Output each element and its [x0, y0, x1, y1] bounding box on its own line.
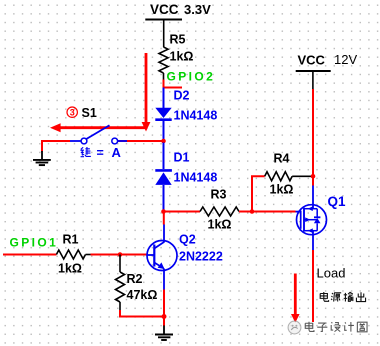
power symbol VCC 3.3V — [145, 2, 211, 20]
svg-text:GPIO2: GPIO2 — [167, 70, 216, 84]
annotation red arrow down (current path) — [142, 53, 151, 132]
svg-text:1N4148: 1N4148 — [174, 171, 218, 185]
svg-text:R1: R1 — [63, 233, 79, 247]
switch S1 — [70, 125, 127, 144]
svg-text:R5: R5 — [170, 33, 186, 47]
svg-text:3: 3 — [70, 108, 75, 118]
annotation red arrow left (current path) — [50, 123, 147, 132]
transistor Q2 2N2222 — [147, 225, 223, 290]
wire R4 left leg — [252, 176, 265, 211]
svg-text:12V: 12V — [334, 52, 357, 67]
svg-text:R2: R2 — [127, 272, 143, 286]
ground (left) — [33, 151, 51, 165]
svg-text:1N4148: 1N4148 — [174, 109, 218, 123]
svg-text:1kΩ: 1kΩ — [208, 218, 232, 232]
annotation circled 3 — [67, 107, 77, 118]
wire VCC12 rail — [312, 89, 314, 186]
power symbol VCC 12V — [296, 52, 358, 89]
wire R2 to emitter net — [120, 310, 164, 317]
svg-text:Load: Load — [317, 266, 346, 281]
svg-text:VCC: VCC — [298, 53, 326, 68]
svg-text:S1: S1 — [82, 106, 97, 120]
node junction D1/R3/Q2 — [161, 209, 166, 214]
diode D1 1N4148 — [155, 143, 217, 211]
svg-text:A: A — [112, 145, 122, 160]
wire GPIO2 net stub — [164, 80, 183, 88]
svg-text:47kΩ: 47kΩ — [127, 288, 158, 302]
node junction R4/rail — [311, 174, 316, 179]
svg-text:2N2222: 2N2222 — [179, 250, 223, 264]
node junction emitter/R2 — [162, 314, 167, 319]
watermark logo icon — [288, 321, 301, 334]
wire Q1 source output — [312, 250, 314, 322]
svg-text:Q2: Q2 — [179, 233, 196, 247]
watermark text (Chinese) — [305, 322, 367, 332]
svg-text:1kΩ: 1kΩ — [58, 262, 82, 276]
svg-text:D2: D2 — [174, 89, 190, 103]
label key = A — [80, 145, 121, 160]
svg-text:D1: D1 — [174, 151, 190, 165]
svg-text:1kΩ: 1kΩ — [170, 50, 194, 64]
resistor R1 — [56, 233, 90, 276]
transistor Q1 MOSFET — [296, 186, 347, 251]
resistor R3 — [200, 188, 239, 232]
wire node to R3 — [164, 211, 201, 213]
wire GPIO1 to R1 — [3, 254, 56, 256]
node junction R3/R4/gate — [250, 209, 255, 214]
node A junction dot — [161, 139, 166, 144]
svg-text:R3: R3 — [211, 188, 227, 202]
svg-text:VCC: VCC — [150, 2, 179, 17]
wire R3 to Q1 gate — [239, 211, 296, 213]
diode D2 1N4148 — [155, 88, 217, 140]
svg-text:1kΩ: 1kΩ — [270, 183, 294, 197]
svg-text:=: = — [97, 146, 104, 160]
resistor R2 — [116, 255, 158, 312]
svg-text:3.3V: 3.3V — [184, 2, 211, 17]
wire switch to ground — [42, 141, 70, 152]
svg-text:GPIO1: GPIO1 — [10, 236, 59, 250]
node junction R1/R2 — [118, 252, 123, 257]
resistor R5 — [159, 33, 193, 80]
wire switch to node — [118, 140, 164, 142]
wire node to Q2 collector — [163, 212, 165, 225]
resistor R4 — [265, 152, 312, 197]
wire Q2 emitter to ground — [163, 290, 165, 317]
label power output (Chinese) — [320, 292, 365, 302]
ground (bottom) — [155, 326, 173, 341]
svg-text:R4: R4 — [274, 152, 290, 166]
svg-text:Q1: Q1 — [328, 194, 347, 209]
wire R1 to Q2 base — [91, 254, 148, 256]
annotation red arrow down (output current) — [291, 274, 300, 323]
wire VCC3.3 to R5 — [163, 20, 165, 48]
